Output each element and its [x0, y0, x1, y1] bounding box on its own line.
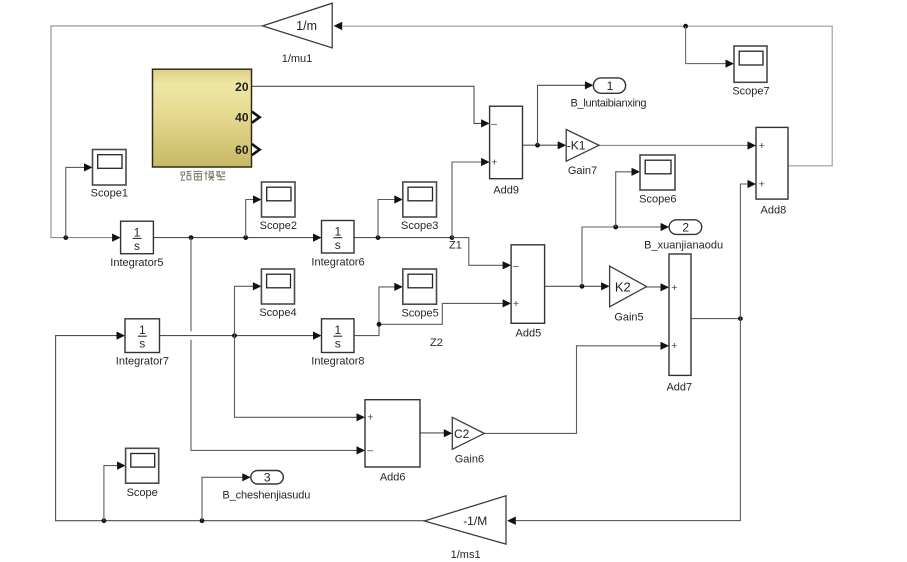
svg-text:B_cheshenjiasudu: B_cheshenjiasudu: [222, 490, 310, 502]
integrator Integrator8: [311, 319, 364, 368]
wire: branch up to Add8 second input: [740, 184, 747, 319]
wire: branch up to out-port 3: [202, 477, 243, 520]
svg-text:Gain7: Gain7: [568, 165, 597, 177]
integrator Integrator5: [110, 221, 163, 269]
wire: Gain6 output to Add7 second input: [484, 346, 660, 434]
svg-text:+: +: [513, 298, 519, 310]
port chevron 40: [252, 112, 260, 123]
scope Scope7: [732, 46, 769, 97]
node: junction feeding out-port 3: [200, 518, 205, 523]
svg-text:–: –: [367, 445, 373, 457]
svg-text:Add7: Add7: [666, 382, 692, 394]
wire: branch up to Scope3: [378, 200, 394, 238]
svg-text:Gain6: Gain6: [455, 454, 484, 466]
node: junction on Integrator8 output riser: [377, 322, 382, 327]
svg-text:Add8: Add8: [761, 204, 787, 216]
svg-text:–: –: [513, 260, 519, 272]
scope Scope5: [401, 269, 438, 319]
scope Scope6: [639, 155, 676, 206]
sum Add5: [511, 245, 544, 339]
node: junction feeding Scope2: [243, 235, 248, 240]
svg-text:Scope7: Scope7: [732, 85, 769, 97]
svg-text:–: –: [491, 118, 497, 130]
node: junction feeding Scope (bottom): [102, 518, 107, 523]
svg-text:60: 60: [235, 143, 249, 157]
sum Add9: [490, 106, 523, 196]
wire: Add9 output to Gain7: [523, 144, 558, 146]
scope Scope3: [401, 182, 438, 232]
svg-text:Scope4: Scope4: [259, 307, 296, 319]
wire: long vertical x=191 down to Add6 minus input (with crossover gap): [191, 238, 357, 451]
wire: branch up to out-port 1: [538, 85, 586, 145]
node: junction after Add7: [738, 316, 743, 321]
svg-text:s: s: [139, 337, 145, 351]
wire: branch down to Add6 plus input: [235, 336, 357, 418]
node: junction on top loop wire: [683, 24, 688, 29]
scope Scope1: [91, 150, 128, 200]
svg-text:1: 1: [334, 225, 341, 239]
wire: Z1 up to Add9 plus input: [452, 162, 481, 238]
svg-text:Scope6: Scope6: [639, 194, 676, 206]
wire: Add6 output to Gain6: [420, 432, 444, 434]
wire: branch up to Scope2: [246, 200, 254, 238]
integrator Integrator6: [311, 221, 364, 269]
wire: branch up to Scope1: [66, 167, 84, 237]
svg-text:s: s: [335, 238, 341, 252]
svg-text:40: 40: [235, 111, 249, 125]
scope Scope4: [259, 269, 296, 319]
node: junction after Add9: [535, 143, 540, 148]
port chevron 60: [252, 144, 260, 155]
wire: 1/mu1 output left then down to Integrator5 input: [51, 26, 263, 238]
svg-text:Integrator6: Integrator6: [311, 257, 364, 269]
wire: Integrator6 output to Z1 node: [354, 237, 452, 239]
wire: branch up to Scope6: [616, 172, 632, 227]
gain 1/mu1 (flipped triangle): [263, 3, 343, 65]
svg-text:Add9: Add9: [493, 184, 519, 196]
out-port 3 B_cheshenjiasudu: [222, 471, 310, 502]
svg-text:K2: K2: [615, 279, 631, 294]
svg-text:Z2: Z2: [430, 337, 443, 349]
subsystem 路面模型 (road model): [153, 69, 260, 167]
svg-text:s: s: [134, 239, 140, 253]
node: junction after Add5: [580, 284, 585, 289]
sum Add7: [666, 254, 692, 394]
svg-text:+: +: [491, 157, 497, 169]
sum Add8: [756, 127, 788, 216]
svg-text:-K1: -K1: [567, 139, 586, 153]
svg-text:+: +: [367, 412, 373, 424]
svg-text:Scope3: Scope3: [401, 220, 438, 232]
svg-text:Integrator5: Integrator5: [110, 257, 163, 269]
svg-text:Scope2: Scope2: [260, 220, 297, 232]
svg-text:s: s: [335, 337, 341, 351]
svg-text:Scope5: Scope5: [401, 307, 438, 319]
svg-text:Z1: Z1: [449, 240, 462, 252]
svg-text:1/ms1: 1/ms1: [451, 549, 481, 561]
svg-text:1: 1: [334, 323, 341, 337]
wire: branch up to Scope: [104, 466, 117, 521]
svg-text:20: 20: [235, 80, 249, 94]
node: junction at Integrator5 input branch: [63, 235, 68, 240]
svg-text:+: +: [759, 179, 765, 191]
svg-text:3: 3: [264, 471, 271, 485]
gain Gain6 (C2): [452, 417, 484, 465]
svg-text:+: +: [759, 140, 765, 152]
wire: 1/ms1 output left, up to Integrator7 input: [56, 336, 425, 521]
label 路面模型: [181, 171, 225, 181]
node: junction feeding vertical drop at x=191: [189, 235, 194, 240]
wire: Gain5 output to Add7 first input: [647, 286, 661, 288]
node: junction feeding Scope6: [613, 225, 618, 230]
svg-text:Integrator8: Integrator8: [311, 356, 364, 368]
svg-text:B_xuanjianaodu: B_xuanjianaodu: [644, 239, 723, 251]
wire: branch up to out-port 2: [582, 227, 661, 286]
wire: branch up to Scope4: [235, 286, 254, 335]
svg-text:1: 1: [139, 323, 146, 337]
svg-text:1/m: 1/m: [296, 19, 317, 33]
svg-text:1: 1: [607, 79, 614, 93]
svg-text:2: 2: [682, 220, 689, 234]
svg-text:1/mu1: 1/mu1: [282, 53, 313, 65]
svg-text:Scope: Scope: [127, 487, 158, 499]
svg-text:-1/M: -1/M: [463, 514, 487, 528]
node: junction on Integrator7 output: [232, 333, 237, 338]
svg-text:C2: C2: [454, 427, 470, 441]
gain Gain7 (-K1): [566, 130, 599, 177]
wire: branch from top loop down to Scope7: [686, 26, 726, 63]
svg-text:Gain5: Gain5: [614, 311, 643, 323]
node: junction feeding Scope3: [376, 235, 381, 240]
wire: road model port 20 to Add9 minus input: [252, 86, 482, 123]
svg-text:1: 1: [134, 225, 141, 239]
scope Scope2: [260, 182, 297, 232]
wire: Z1 down to Add5 minus input: [452, 238, 503, 266]
svg-text:Add5: Add5: [516, 327, 542, 339]
wire: branch down and left to 1/ms1 input: [516, 319, 740, 521]
wire: Add7 output junction: [691, 318, 740, 320]
wire: Add8 output feedback loop to 1/mu1 input (top): [343, 26, 833, 166]
wire: Integrator8 output up to Scope5 and Z2 run to Add5 plus input: [354, 287, 503, 336]
out-port 1 B_luntaibianxing: [571, 78, 647, 110]
wire: Add5 output to Gain5: [545, 285, 602, 287]
integrator Integrator7: [116, 319, 169, 368]
gain 1/ms1 (-1/M flipped triangle): [424, 496, 515, 561]
svg-text:+: +: [671, 340, 677, 352]
gain Gain5 (K2): [610, 266, 647, 323]
scope Scope: [126, 448, 159, 499]
sum Add6: [365, 400, 420, 484]
svg-text:Integrator7: Integrator7: [116, 356, 169, 368]
wire: Integrator5 output to Integrator6: [153, 237, 313, 239]
svg-text:B_luntaibianxing: B_luntaibianxing: [571, 97, 647, 109]
svg-text:+: +: [671, 282, 677, 294]
node: Z1 junction: [450, 235, 455, 240]
out-port 2 B_xuanjianaodu: [644, 220, 723, 252]
wire: Gain7 output to Add8 first input: [599, 144, 748, 146]
svg-text:Add6: Add6: [380, 472, 406, 484]
svg-text:Scope1: Scope1: [91, 187, 128, 199]
wire: Integrator7 output to Integrator8: [160, 335, 314, 337]
